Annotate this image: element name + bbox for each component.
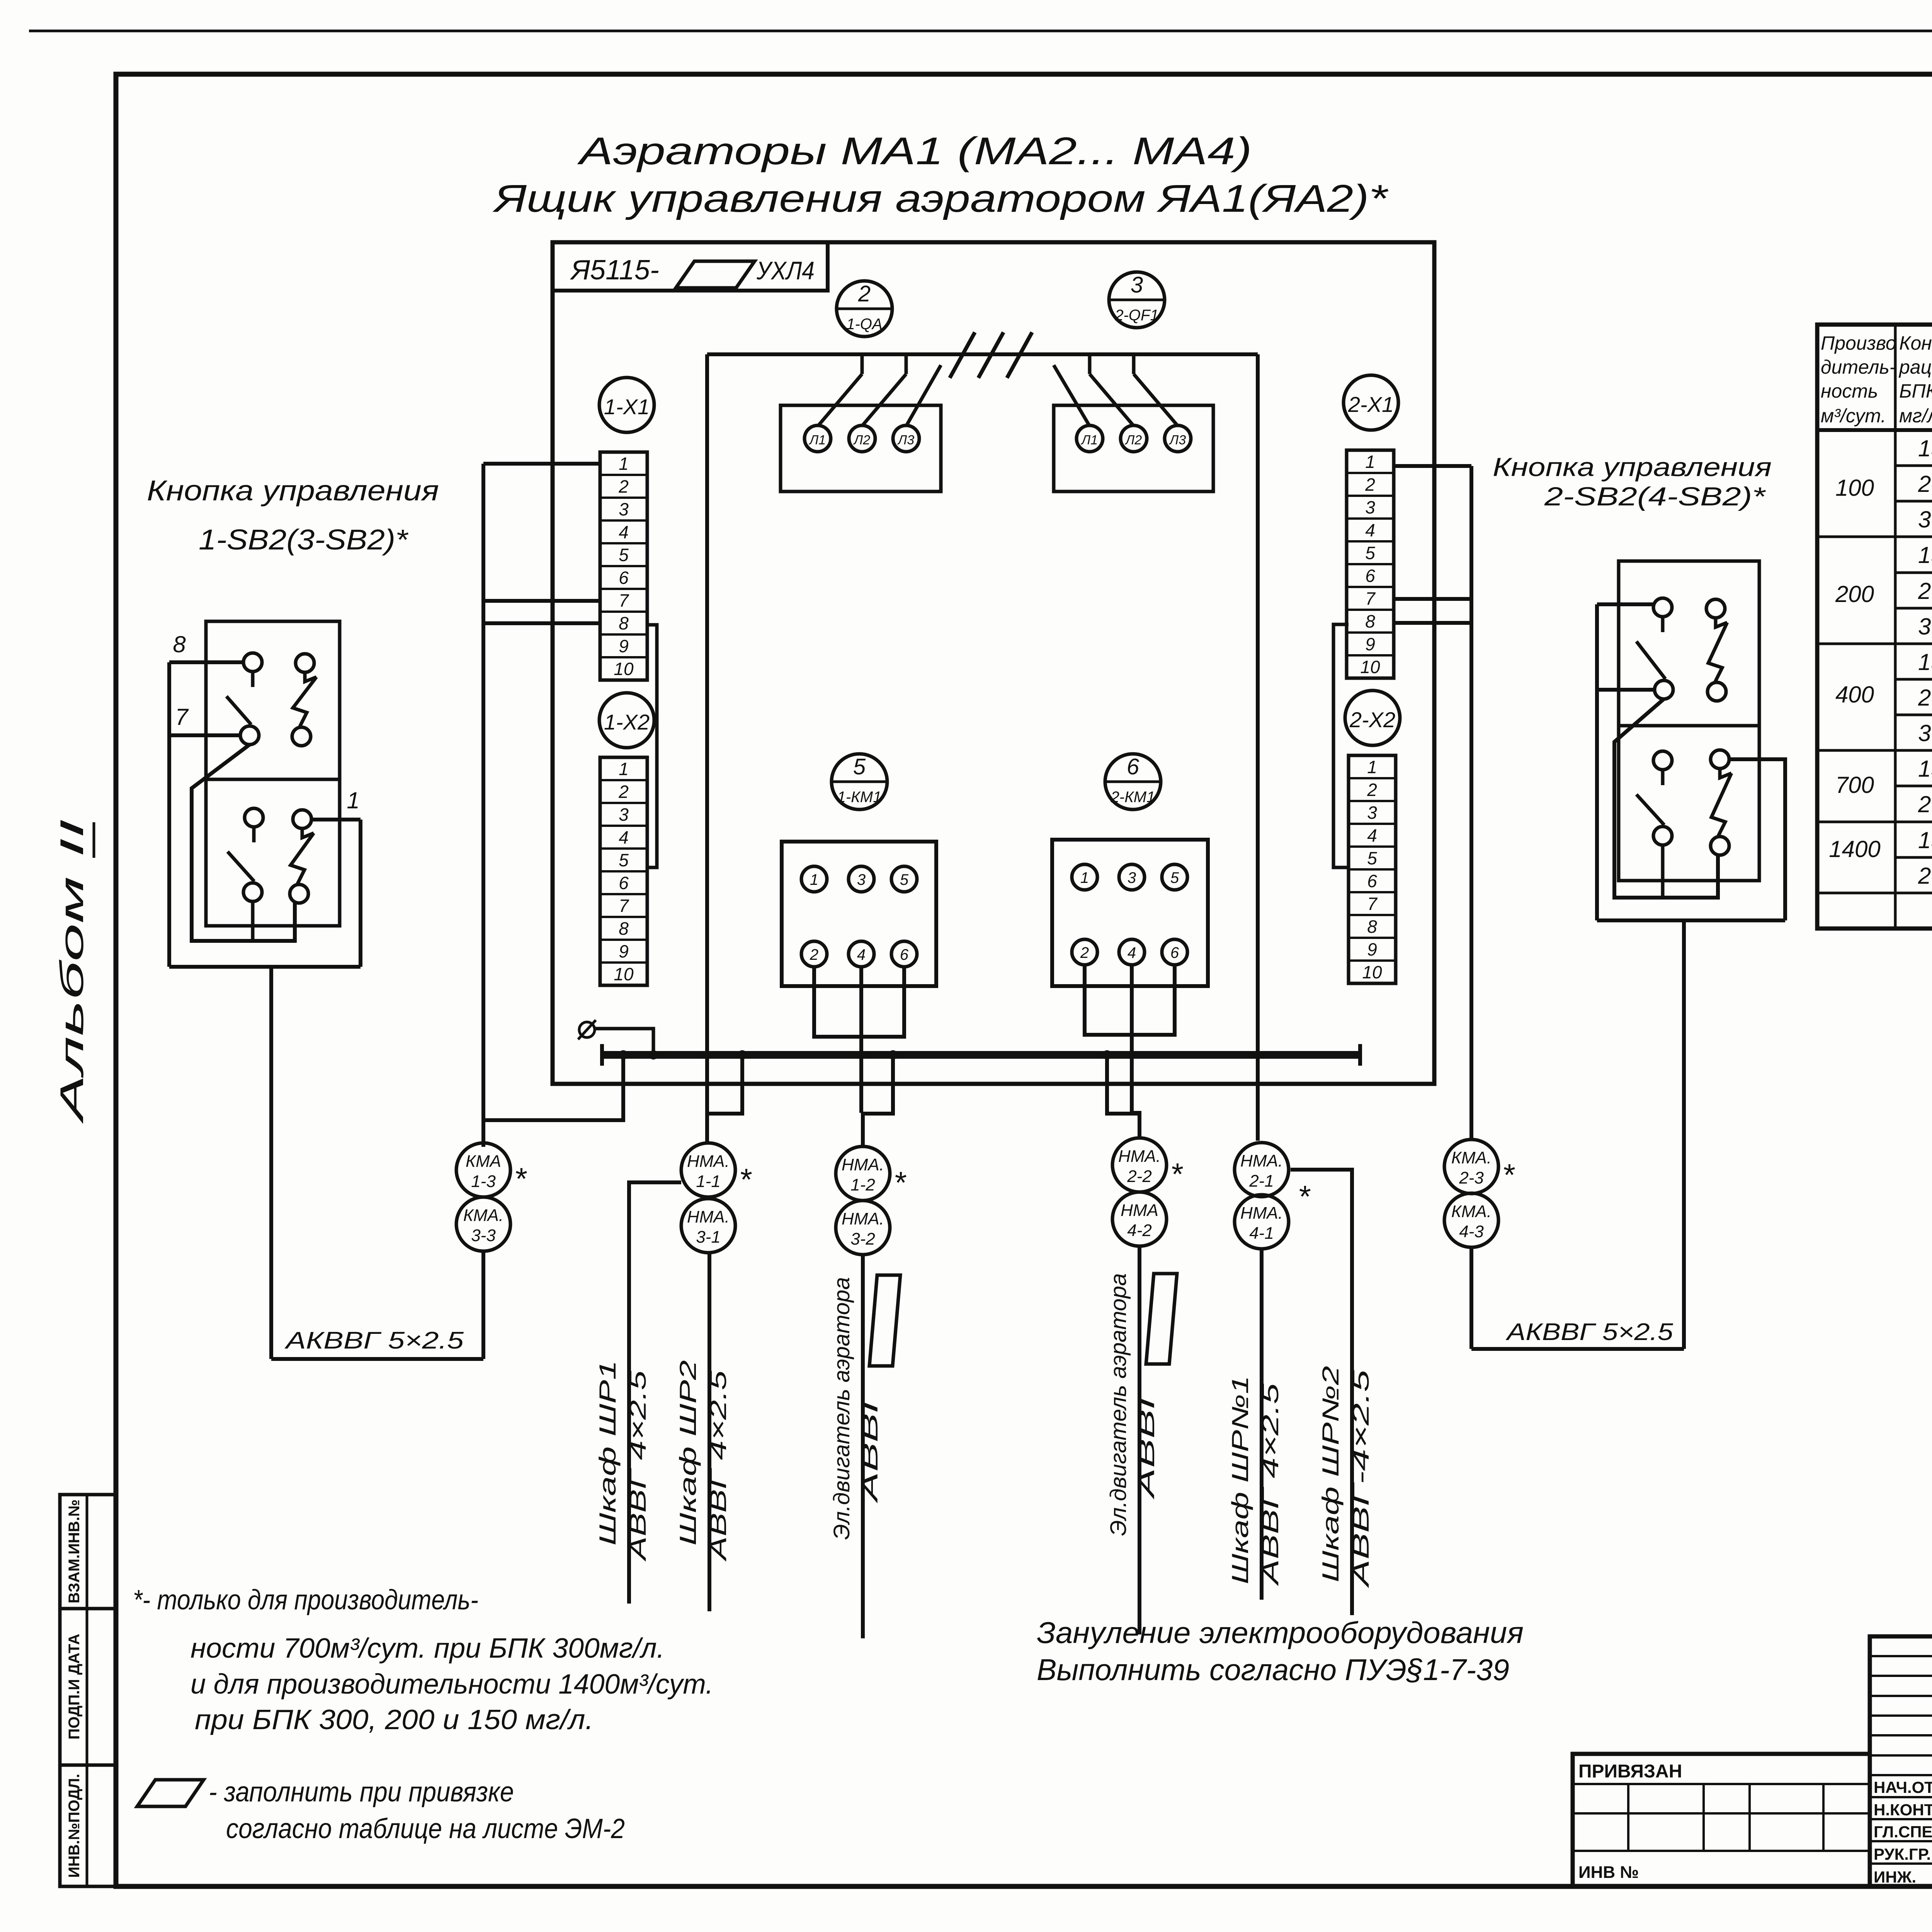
привязан row line 3 [1573, 1850, 1870, 1852]
svg-text:6: 6 [900, 946, 909, 963]
svg-text:2-SB2(4-SB2)*: 2-SB2(4-SB2)* [1544, 482, 1766, 511]
svg-text:2-3: 2-3 [1459, 1168, 1484, 1187]
wire core 1 [311, 818, 361, 821]
contactor2 terminal 4 [1119, 939, 1145, 965]
svg-text:ВЗАМ.ИНВ.№: ВЗАМ.ИНВ.№ [66, 1500, 83, 1604]
contactor2 terminal 2 [1072, 939, 1097, 965]
button2 internal link wire [1614, 699, 1718, 898]
left strip divider [86, 1495, 88, 1886]
wire НМА-2-1 to ШРn2 cable [1291, 1170, 1352, 1615]
svg-text:400: 400 [1835, 682, 1874, 707]
svg-text:8: 8 [619, 613, 629, 633]
wire НМА-1-1 to ШР1 cable [629, 1182, 681, 1604]
svg-text:3: 3 [1131, 272, 1143, 298]
svg-text:3-3: 3-3 [471, 1226, 496, 1245]
cable marker КМА 1-3 [456, 1143, 510, 1197]
svg-text:Эл.двигатель аэратора: Эл.двигатель аэратора [1106, 1273, 1131, 1536]
connector label circle 2-X2 [1345, 690, 1400, 745]
svg-text:4: 4 [857, 946, 866, 963]
contactor2 terminal 5 [1162, 864, 1187, 890]
wire КМА-1-3 to КМА top [481, 1143, 485, 1147]
wire НМА-4-2 down motor cable [1138, 1246, 1141, 1634]
svg-text:Кнопка управления: Кнопка управления [147, 474, 439, 507]
svg-text:Шкаф ШР№2: Шкаф ШР№2 [1318, 1366, 1344, 1582]
svg-text:1: 1 [1365, 452, 1375, 472]
svg-text:1-SB2(3-SB2)*: 1-SB2(3-SB2)* [199, 524, 408, 556]
underline of II [93, 822, 95, 858]
title block row line [1870, 1862, 1932, 1865]
callout circle 6 / 2-КМ1 [1105, 754, 1161, 810]
terminal divider [1349, 959, 1396, 962]
contactor2 terminal 1 [1072, 864, 1097, 890]
cable КМА-1-3 vertical [481, 464, 485, 1143]
link 2-X1 pin8 to 2-X2 pin5 [1333, 624, 1349, 867]
svg-text:1: 1 [619, 454, 629, 474]
svg-text:1-X1: 1-X1 [604, 395, 650, 419]
svg-text:Л3: Л3 [1169, 433, 1186, 447]
svg-text:6: 6 [1367, 871, 1377, 891]
contact terminal [245, 808, 263, 827]
svg-text:3: 3 [1365, 497, 1375, 517]
table row line [1817, 643, 1932, 645]
svg-text:АВВГ 4×2.5: АВВГ 4×2.5 [1257, 1383, 1283, 1586]
wire ground to bus [595, 1029, 653, 1055]
terminal block 2-X2 [1349, 755, 1396, 983]
button2 cable drop [1682, 920, 1686, 1349]
type label box Я5115 [553, 242, 828, 291]
svg-text:150: 150 [1918, 756, 1932, 782]
svg-text:200: 200 [1918, 791, 1932, 817]
cable marker КМА. 4-3 [1444, 1193, 1498, 1247]
contactor1 terminal 6 [891, 941, 917, 967]
button2 outer bottom [1597, 918, 1785, 922]
svg-text:9: 9 [619, 941, 629, 961]
wire motor cable right drop to НМА-2-1 [1256, 354, 1260, 1141]
link 1-X1 pin8 to 1-X2 pin5 [647, 625, 657, 867]
table row line [1895, 678, 1932, 681]
svg-text:Эл.двигатель аэратора: Эл.двигатель аэратора [829, 1277, 854, 1540]
lower BL stem [251, 901, 255, 941]
bus stub to НМА-2-2 wire [1107, 1055, 1139, 1114]
table row line [1895, 571, 1932, 574]
table row line [1817, 536, 1932, 538]
terminal divider [600, 802, 647, 804]
svg-text:1: 1 [810, 871, 818, 888]
terminal divider [600, 542, 647, 544]
terminal divider [1349, 914, 1396, 916]
connector label circle 1-X2 [599, 693, 654, 748]
button2 right side wire [1729, 759, 1785, 920]
lamp Л2 right [1121, 425, 1147, 452]
bus left end tick [600, 1044, 604, 1066]
svg-text:*: * [739, 1162, 752, 1197]
привязан row line 1 [1573, 1783, 1870, 1785]
svg-text:200: 200 [1835, 581, 1874, 607]
switch blade NO [251, 672, 255, 687]
terminal divider [600, 825, 647, 827]
terminal divider [600, 519, 647, 522]
contact terminal [1653, 751, 1672, 770]
contactor 2-КМ1 box [1052, 840, 1208, 986]
svg-text:200: 200 [1918, 685, 1932, 711]
terminal divider [600, 779, 647, 781]
terminal divider [1349, 868, 1396, 871]
svg-text:2: 2 [618, 476, 629, 497]
svg-text:9: 9 [1367, 939, 1377, 959]
lamp box 1 [781, 405, 941, 492]
svg-text:2-КМ1: 2-КМ1 [1111, 789, 1155, 806]
svg-text:Концент-: Концент- [1899, 332, 1932, 354]
svg-text:Шкаф ШР№1: Шкаф ШР№1 [1227, 1376, 1253, 1584]
svg-text:8: 8 [1365, 611, 1375, 631]
terminal divider [1347, 495, 1394, 497]
title block row line [1870, 1840, 1932, 1842]
contact terminal [243, 653, 262, 672]
callout circle 2 / 1-QA [837, 281, 892, 337]
bus stub to НМА-1-1 wire [709, 1055, 742, 1114]
control cabinet box ЯА1 [553, 242, 1434, 1084]
table column line производительность [1894, 325, 1897, 929]
bus right end tick [1358, 1044, 1362, 1066]
svg-text:300: 300 [1918, 720, 1932, 746]
svg-text:и для производительности 1400м: и для производительности 1400м³/сут. [190, 1669, 713, 1700]
svg-text:1: 1 [1080, 869, 1089, 886]
table row line [1895, 607, 1932, 610]
switch blade NO [252, 827, 256, 842]
svg-text:200: 200 [1918, 863, 1932, 889]
svg-text:АВВГ 4×2.5: АВВГ 4×2.5 [625, 1370, 651, 1562]
svg-text:Л2: Л2 [853, 433, 870, 447]
contactor1 terminal 2 [801, 941, 827, 967]
contactor2 terminal 6 [1162, 939, 1187, 965]
svg-text:1: 1 [619, 759, 629, 779]
terminal block 1-X2 [600, 757, 647, 985]
left strip ПОДП.И ДАТА box [60, 1609, 116, 1765]
svg-text:ИНВ №: ИНВ № [1578, 1863, 1639, 1882]
svg-text:4: 4 [1367, 825, 1377, 845]
svg-text:ность: ность [1821, 380, 1878, 402]
left strip ВЗАМ.ИНВ.№ box [60, 1495, 116, 1609]
table row line [1817, 749, 1932, 752]
svg-text:1: 1 [347, 787, 359, 813]
sheet top edge line [29, 30, 1932, 32]
cable marker КМА. 2-3 [1444, 1139, 1498, 1194]
svg-text:1-2: 1-2 [850, 1175, 875, 1194]
svg-text:НМА.: НМА. [687, 1207, 730, 1226]
svg-text:НМА.: НМА. [687, 1152, 730, 1171]
svg-text:НМА.: НМА. [842, 1209, 884, 1228]
neutral bus [602, 1051, 1360, 1059]
wire КМА-4-3 down [1469, 1247, 1473, 1349]
svg-text:150: 150 [1918, 542, 1932, 568]
svg-text:КМА.: КМА. [463, 1206, 503, 1225]
svg-text:9: 9 [619, 636, 629, 656]
note parallelogram symbol [137, 1780, 204, 1806]
svg-text:6: 6 [619, 873, 629, 893]
svg-text:4: 4 [619, 522, 629, 542]
button 1-SB2 upper box [206, 621, 340, 779]
svg-text:1-КМ1: 1-КМ1 [837, 789, 882, 806]
svg-text:Л1: Л1 [809, 433, 826, 447]
table header bottom line [1817, 428, 1932, 432]
left strip ИНВ.№ПОДЛ. box [60, 1765, 116, 1886]
svg-text:3: 3 [619, 499, 629, 519]
svg-text:ности 700м³/сут. при БПК 300мг: ности 700м³/сут. при БПК 300мг/л. [190, 1633, 665, 1664]
svg-text:Кнопка управления: Кнопка управления [1493, 452, 1772, 482]
svg-text:4: 4 [1365, 520, 1375, 540]
svg-text:5: 5 [1365, 543, 1375, 563]
svg-text:3-2: 3-2 [850, 1230, 875, 1248]
svg-text:1-X2: 1-X2 [604, 710, 650, 734]
wire 1-X1 pin7 to cable [483, 599, 600, 603]
svg-text:НМА.: НМА. [1240, 1151, 1283, 1170]
terminal divider [600, 961, 647, 964]
button cable drop [269, 967, 273, 1359]
svg-text:НМА: НМА [1121, 1201, 1158, 1220]
cable run АКВВГ left [271, 1357, 483, 1361]
svg-text:Л2: Л2 [1125, 433, 1142, 447]
svg-text:10: 10 [1362, 962, 1382, 982]
switch blade NC [1716, 618, 1727, 627]
svg-text:1400: 1400 [1829, 836, 1880, 862]
lamp 2 tap wires [1088, 355, 1092, 374]
lamp 1 tap wires [861, 355, 864, 374]
svg-text:7: 7 [619, 896, 629, 916]
cable marker НМА 4-2 [1112, 1192, 1167, 1246]
svg-text:НАЧ.ОТД: НАЧ.ОТД [1874, 1778, 1932, 1796]
cable run АКВВГ right [1471, 1347, 1684, 1351]
svg-text:*: * [514, 1162, 527, 1196]
svg-text:дитель-: дитель- [1821, 356, 1896, 378]
svg-text:2-X2: 2-X2 [1349, 707, 1395, 732]
contactor2 terminal 3 [1119, 864, 1145, 890]
contact terminal [1653, 598, 1672, 617]
button internal link wire [192, 745, 295, 941]
wire НМА-3-1 down ШР2 cable [707, 1253, 711, 1611]
svg-text:2: 2 [1080, 944, 1089, 961]
wire НМА-4-1 down ШРn1 cable [1260, 1249, 1264, 1600]
lamp Л3 right [1165, 425, 1191, 452]
lamp Л2 [849, 425, 875, 452]
terminal divider [1347, 586, 1394, 588]
terminal divider [600, 870, 647, 872]
svg-text:150: 150 [1918, 827, 1932, 853]
svg-text:2: 2 [1367, 780, 1377, 800]
table outer border [1817, 325, 1932, 929]
svg-text:ИНВ.№ПОДЛ.: ИНВ.№ПОДЛ. [66, 1774, 83, 1878]
terminal divider [1347, 631, 1394, 634]
svg-text:при БПК 300, 200 и 150 мг/л.: при БПК 300, 200 и 150 мг/л. [195, 1704, 594, 1735]
terminal divider [1347, 540, 1394, 543]
wire 2-X1 pin1 to cable [1394, 464, 1471, 468]
wire terminal4 down to НМА-1-2 [859, 967, 863, 1113]
title block row line [1870, 1774, 1932, 1776]
svg-text:Ящик управления аэратором ЯА1(: Ящик управления аэратором ЯА1(ЯА2)* [492, 177, 1389, 220]
svg-text:КМА.: КМА. [1451, 1202, 1492, 1221]
svg-text:мг/л.: мг/л. [1899, 405, 1932, 427]
wire motor cable horizontal [707, 352, 1258, 356]
button2 cable left vertical [1595, 604, 1599, 920]
svg-text:150: 150 [1918, 435, 1932, 461]
cable marker НМА. 4-1 [1235, 1195, 1289, 1249]
svg-text:9: 9 [1365, 634, 1375, 654]
ground symbol Ø [579, 1022, 595, 1037]
svg-text:3: 3 [1128, 869, 1136, 886]
title block row line [1870, 1714, 1932, 1717]
svg-text:6: 6 [1127, 754, 1139, 779]
cable crossing slash marks [950, 332, 975, 378]
terminal divider [1349, 845, 1396, 848]
callout circle 3 / 2-QF1 [1109, 272, 1165, 328]
svg-text:5: 5 [619, 850, 629, 870]
table row line [1895, 500, 1932, 503]
contactor1 terminal 3 [849, 866, 874, 892]
cable marker НМА. 3-2 [836, 1201, 890, 1255]
svg-text:300: 300 [1918, 614, 1932, 639]
button 1-SB2 lower box [206, 779, 340, 926]
svg-text:4: 4 [1128, 944, 1136, 961]
terminal divider [600, 916, 647, 918]
button cable left vertical [167, 662, 171, 967]
table row line [1895, 464, 1932, 467]
svg-text:7: 7 [1367, 894, 1378, 914]
svg-text:рация: рация [1898, 356, 1932, 378]
svg-text:АВВГ-4×2.5: АВВГ-4×2.5 [1348, 1369, 1374, 1588]
svg-text:Я5115-: Я5115- [570, 255, 659, 286]
wire to upper TL [1597, 602, 1653, 606]
svg-text:Шкаф ШР2: Шкаф ШР2 [675, 1360, 701, 1546]
terminal divider [1349, 891, 1396, 893]
parallelogram mark 1 [869, 1275, 900, 1366]
svg-text:Л3: Л3 [897, 433, 914, 447]
terminal divider [1347, 654, 1394, 656]
svg-text:*: * [893, 1165, 906, 1200]
terminal divider [600, 474, 647, 476]
svg-text:8: 8 [1367, 917, 1377, 937]
svg-text:300: 300 [1918, 507, 1932, 532]
button right side wire [359, 820, 362, 967]
cable marker КМА. 3-3 [456, 1197, 510, 1251]
svg-text:4-1: 4-1 [1249, 1224, 1274, 1243]
wire to upper BL [1597, 688, 1655, 692]
svg-text:Л1: Л1 [1081, 433, 1098, 447]
type label parallelogram [676, 261, 755, 288]
wire core 7 [169, 733, 240, 737]
svg-text:2-X1: 2-X1 [1348, 392, 1394, 417]
switch blade NO [1661, 770, 1665, 785]
svg-text:2: 2 [810, 946, 818, 963]
svg-text:АВВГ: АВВГ [1134, 1382, 1159, 1500]
table row line [1817, 821, 1932, 823]
svg-text:2: 2 [618, 782, 629, 802]
svg-text:ГЛ.СПЕЦ: ГЛ.СПЕЦ [1874, 1823, 1932, 1841]
svg-text:ПОДП.И ДАТА: ПОДП.И ДАТА [66, 1634, 83, 1740]
contactor1 terminal 4 [849, 941, 874, 967]
svg-text:100: 100 [1835, 475, 1874, 501]
svg-text:6: 6 [619, 568, 629, 588]
svg-text:150: 150 [1918, 649, 1932, 675]
svg-text:КМА: КМА [466, 1152, 501, 1171]
svg-text:м³/сут.: м³/сут. [1821, 405, 1886, 427]
svg-text:8: 8 [619, 918, 629, 939]
contactor 1-КМ1 box [782, 842, 936, 986]
terminal divider [1349, 800, 1396, 802]
bus stub to НМА-1-2 wire [863, 1055, 893, 1114]
svg-text:ПРИВЯЗАН: ПРИВЯЗАН [1578, 1761, 1682, 1782]
cable marker НМА. 2-1 [1235, 1143, 1289, 1197]
svg-text:2: 2 [858, 281, 871, 306]
terminal block 2-X1 [1347, 450, 1394, 678]
terminal divider [1347, 517, 1394, 520]
table row line [1895, 714, 1932, 716]
svg-text:*: * [1298, 1179, 1311, 1214]
contactor2 loop wire 2-6 [1085, 965, 1175, 1035]
svg-text:5: 5 [900, 871, 909, 888]
svg-text:КМА.: КМА. [1451, 1148, 1492, 1167]
cable marker НМА. 3-1 [681, 1199, 735, 1253]
svg-text:АВВГ: АВВГ [857, 1386, 883, 1503]
title block row line [1870, 1695, 1932, 1697]
switch blade NC [305, 672, 316, 682]
terminal divider [600, 611, 647, 613]
cable КМА-2-3 vertical [1469, 466, 1473, 1139]
table row line [1817, 892, 1932, 895]
svg-text:3: 3 [619, 804, 629, 825]
table row line [1895, 856, 1932, 859]
terminal divider [1347, 472, 1394, 474]
svg-text:ИНЖ.: ИНЖ. [1874, 1868, 1916, 1886]
svg-text:200: 200 [1918, 578, 1932, 604]
title block row line [1870, 1754, 1932, 1757]
title block row line [1870, 1818, 1932, 1820]
svg-text:НМА.: НМА. [842, 1155, 884, 1174]
title block left column grid [1870, 1636, 1932, 1886]
wire 1-X1 pin1 to cable [483, 462, 600, 466]
svg-text:АКВВГ 5×2.5: АКВВГ 5×2.5 [284, 1327, 464, 1354]
svg-text:6: 6 [1170, 944, 1179, 961]
bus junction dots [619, 1050, 628, 1060]
terminal divider [600, 588, 647, 590]
svg-text:5: 5 [619, 545, 629, 565]
terminal divider [600, 633, 647, 636]
button outer bottom [169, 965, 361, 969]
svg-text:РУК.ГР.: РУК.ГР. [1874, 1845, 1931, 1863]
svg-text:7: 7 [1365, 588, 1376, 609]
svg-text:1: 1 [1367, 757, 1377, 777]
title block row line [1870, 1734, 1932, 1736]
svg-text:Аэраторы МА1 (МА2... МА4): Аэраторы МА1 (МА2... МА4) [577, 129, 1252, 173]
terminal divider [600, 847, 647, 850]
svg-text:2: 2 [1365, 474, 1375, 495]
connector label circle 1-X1 [599, 378, 654, 432]
привязан box [1573, 1754, 1870, 1886]
terminal divider [1349, 823, 1396, 825]
svg-text:согласно таблице на листе ЭМ-: согласно таблице на листе ЭМ-2 [226, 1813, 625, 1844]
switch blade NO [1661, 617, 1665, 632]
cable marker НМА. 1-2 [836, 1146, 890, 1201]
bus stub to КМА-1-3 wire [483, 1055, 623, 1120]
svg-text:1-1: 1-1 [696, 1172, 721, 1191]
svg-text:700: 700 [1835, 772, 1874, 798]
svg-text:5: 5 [853, 754, 866, 779]
terminal divider [600, 565, 647, 567]
wire 2-X1 pin7 to cable [1394, 597, 1471, 601]
terminal block 1-X1 [600, 452, 647, 680]
svg-text:6: 6 [1365, 566, 1375, 586]
contactor1 terminal 5 [891, 866, 917, 892]
svg-text:10: 10 [614, 964, 634, 984]
svg-text:*: * [1502, 1158, 1515, 1192]
